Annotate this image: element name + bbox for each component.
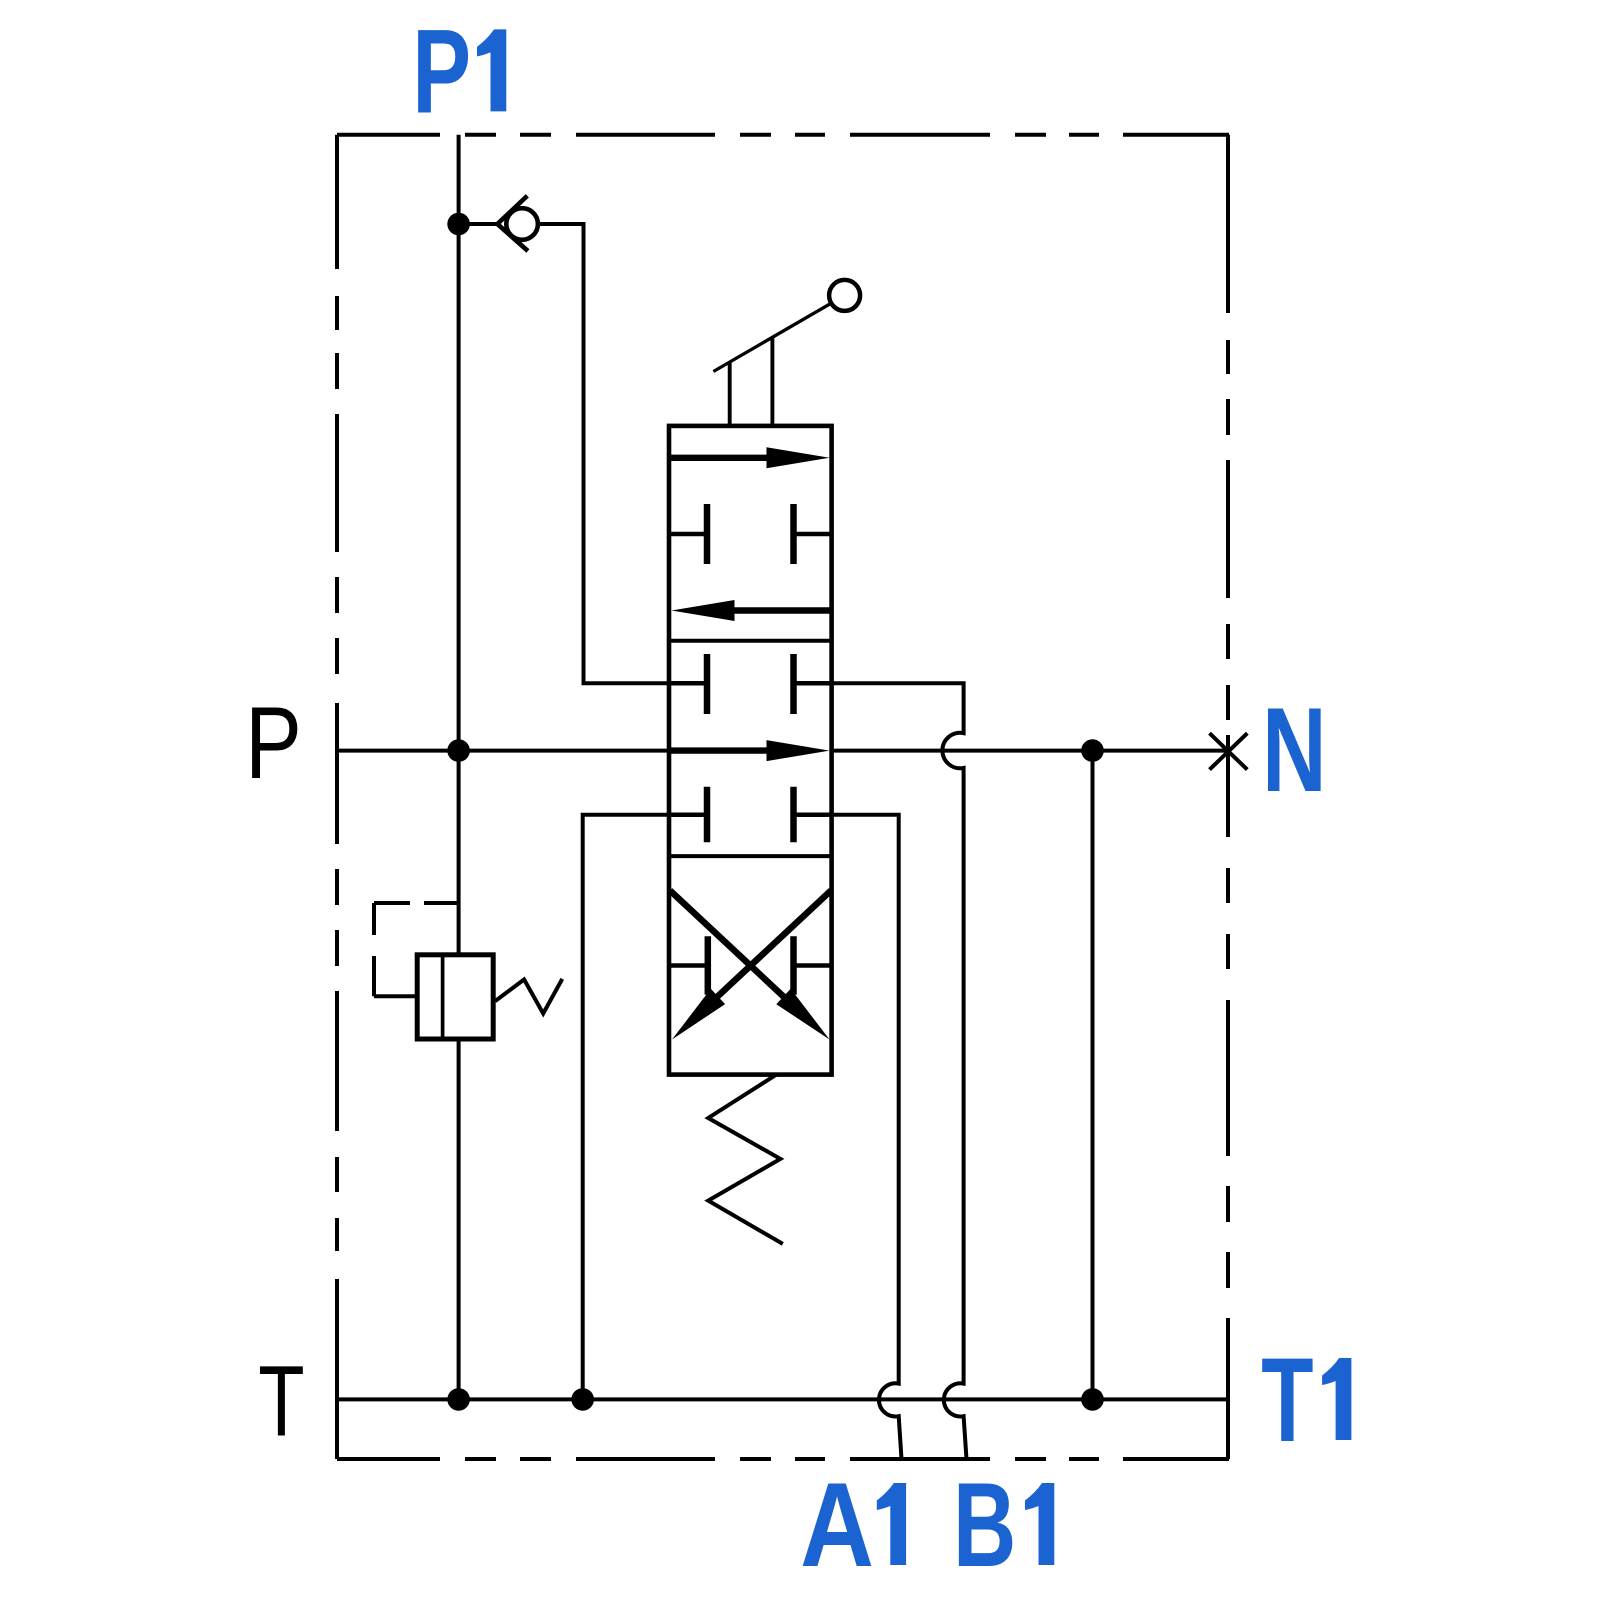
spool position 3 closed ports: [669, 936, 832, 994]
junction node T a: [447, 1388, 470, 1411]
spool position 3 crossed arrows: [670, 891, 831, 1040]
label T1 digit: [1322, 1358, 1351, 1440]
junction node T right: [1081, 1388, 1104, 1411]
relief valve RV1: [417, 955, 562, 1039]
svg-text:P: P: [412, 5, 471, 138]
svg-text:A: A: [800, 1457, 874, 1592]
enclosure dashed border top: [337, 133, 1229, 137]
wire valve right upper port (B1) with hops: [832, 683, 967, 1459]
svg-text:T: T: [1261, 1334, 1313, 1468]
label B1 digit: [1025, 1483, 1054, 1565]
relief valve pilot dashed line: [374, 903, 459, 996]
return spring under valve: [708, 1075, 783, 1244]
label P: [245, 686, 302, 800]
wire P line left: [337, 749, 669, 753]
svg-text:N: N: [1262, 683, 1327, 817]
svg-text:B: B: [953, 1459, 1016, 1593]
spool position 2 closed ports lower: [669, 787, 832, 843]
label T1: [1261, 1334, 1313, 1468]
wire check valve inlet: [459, 222, 500, 226]
label A1 digit: [877, 1483, 906, 1565]
plugged port X at N: [1210, 733, 1248, 769]
svg-text:T: T: [258, 1345, 304, 1457]
junction node T b: [571, 1388, 594, 1411]
spool position 1: arrow left: [672, 600, 832, 621]
spool position 2 closed ports upper: [669, 654, 832, 714]
svg-text:P: P: [245, 686, 302, 800]
spool position 1: arrow right: [669, 447, 830, 468]
enclosure dashed border left: [335, 135, 339, 1459]
label N: [1262, 683, 1327, 817]
spool position 2: arrow right (P passage): [669, 740, 830, 761]
label P1 digit: [477, 29, 506, 111]
label T: [258, 1345, 304, 1457]
label A1: [800, 1457, 874, 1592]
junction node P: [447, 739, 470, 762]
wire T line: [337, 1397, 1228, 1401]
junction node P1/check: [447, 213, 470, 236]
label B1: [953, 1459, 1016, 1593]
wire check valve outlet to valve: [538, 224, 669, 683]
wire right branch vertical: [1091, 751, 1095, 1400]
wire P1 vertical lower (below relief valve): [457, 1039, 461, 1399]
spool position 1 closed ports: [669, 504, 832, 564]
label P1: [412, 5, 471, 138]
wire P1 vertical upper: [457, 135, 461, 955]
check valve CV1: [497, 196, 537, 251]
enclosure dashed border right: [1226, 135, 1230, 1459]
lever handle: [713, 280, 860, 426]
wire P line right: [832, 749, 1228, 753]
junction node P right: [1081, 739, 1104, 762]
wire valve left lower port to T: [583, 815, 669, 1400]
directional valve DV1 outer box: [669, 426, 832, 1075]
enclosure dashed border bottom: [337, 1457, 1229, 1461]
wire valve right lower port (A1) with hop: [832, 815, 902, 1459]
